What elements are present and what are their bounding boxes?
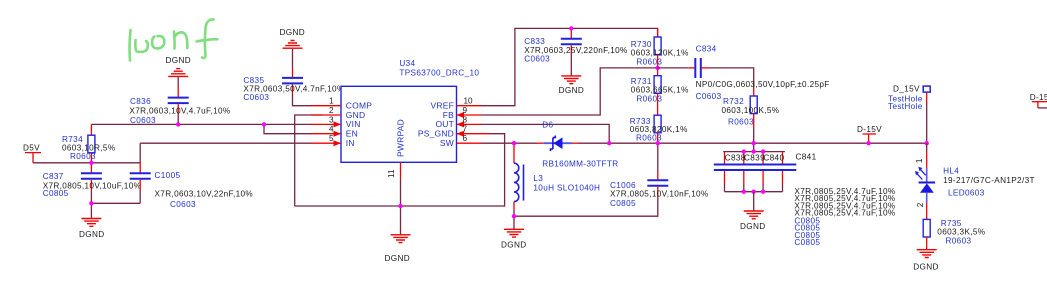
node junction D5V/R734/C837 (89, 161, 93, 165)
port D5V (23, 144, 41, 163)
svg-text:DGND: DGND (79, 230, 105, 239)
testhole D_15V (888, 84, 930, 143)
svg-text:RB160MM-30TFTR: RB160MM-30TFTR (542, 159, 618, 168)
node junction pin11/rail (398, 204, 402, 208)
svg-text:R0603: R0603 (636, 94, 662, 103)
pin 2 GND stub (311, 106, 341, 115)
svg-text:C0603: C0603 (524, 55, 550, 64)
wire IN line to pin5 (140, 142, 311, 144)
pin 6 SW stub (457, 134, 482, 143)
pin 10 VREF stub (457, 97, 482, 106)
svg-text:D-15V: D-15V (857, 125, 882, 134)
node junction C836/VIN bus (176, 122, 180, 126)
svg-text:R0603: R0603 (946, 237, 972, 246)
pin 7 PS_GND stub (457, 125, 491, 137)
ground DGND above C835 (inverted) (280, 28, 306, 68)
svg-text:5: 5 (329, 134, 334, 143)
wire pin2 GND down to rail (295, 115, 322, 206)
wire C835 to pin1 COMP (293, 93, 312, 106)
svg-text:DGND: DGND (740, 222, 766, 231)
pin 11 PWRPAD stub (387, 162, 401, 178)
node junction testhole/LED (925, 141, 929, 145)
node junction R733/C1006 (656, 141, 660, 145)
svg-text:R735: R735 (941, 219, 962, 228)
pin 5 IN stub (311, 134, 341, 146)
svg-text:D_15V: D_15V (893, 84, 920, 93)
svg-text:0603,3K,5%: 0603,3K,5% (937, 228, 985, 237)
svg-text:LED0603: LED0603 (948, 188, 985, 197)
node junction OUT down / line (607, 141, 611, 145)
svg-text:DGND: DGND (913, 263, 939, 272)
svg-text:C0805: C0805 (43, 189, 69, 198)
wire D5V net horizontal (33, 143, 140, 163)
op-amp U34 IC body TPS63700 (341, 59, 479, 162)
resistor R733 (630, 115, 688, 143)
wire FB right and up (481, 68, 658, 115)
wire pin11 to gnd rail (400, 178, 402, 206)
capacitor C836 (129, 86, 230, 125)
svg-text:C840: C840 (763, 153, 784, 162)
svg-text:TPS63700_DRC_10: TPS63700_DRC_10 (399, 69, 479, 78)
node junction L3 top / SW (512, 141, 516, 145)
svg-text:D-15V: D-15V (1030, 93, 1047, 102)
node junctions cap bank bottom rail (742, 190, 746, 194)
inductor L3 (514, 143, 600, 216)
LED HL4 (915, 143, 1035, 219)
svg-text:1: 1 (329, 97, 334, 106)
ground DGND under R735 (913, 250, 939, 272)
svg-text:0603,100K,5%: 0603,100K,5% (722, 106, 780, 115)
ground DGND under pin11 (385, 206, 411, 263)
power label D-15V on line (857, 125, 882, 143)
node junction FB/R730/R731 (655, 66, 659, 70)
wire cap bottoms to ground (91, 202, 140, 204)
svg-text:C837: C837 (43, 172, 64, 181)
annotation handwritten 100nf green (130, 19, 218, 60)
svg-text:DGND: DGND (166, 56, 192, 65)
node junctions cap bank top rail (742, 149, 746, 153)
svg-text:PWRPAD: PWRPAD (396, 119, 406, 157)
svg-text:0603,120K,1%: 0603,120K,1% (631, 49, 689, 58)
svg-text:10: 10 (464, 97, 474, 106)
svg-text:DGND: DGND (501, 241, 527, 250)
pin 3 VIN stub (311, 115, 341, 127)
svg-text:0603,665K,1%: 0603,665K,1% (631, 86, 689, 95)
svg-text:1: 1 (915, 158, 924, 163)
wire L3 bottom line to C1006 (514, 196, 658, 216)
svg-text:L3: L3 (533, 174, 543, 183)
svg-text:C0603: C0603 (696, 92, 722, 101)
pin 1 COMP stub (311, 97, 341, 106)
svg-text:4: 4 (329, 125, 334, 134)
svg-text:C1005: C1005 (155, 171, 181, 180)
svg-text:EN: EN (346, 129, 358, 139)
svg-text:19-217/G7C-AN1P2/3T: 19-217/G7C-AN1P2/3T (943, 176, 1035, 185)
wire ground rail (295, 134, 505, 206)
svg-text:R0603: R0603 (70, 152, 96, 161)
svg-text:HL4: HL4 (943, 167, 959, 176)
node junction R732/cap bank/line (752, 141, 756, 145)
node junction L3 bottom (512, 214, 516, 218)
svg-text:9: 9 (463, 106, 468, 115)
svg-text:NP0/C0G,0603,50V,10pF,±0.25pF: NP0/C0G,0603,50V,10pF,±0.25pF (696, 80, 830, 89)
svg-text:X7R,0603,10V,4.7uF,10%: X7R,0603,10V,4.7uF,10% (129, 107, 230, 116)
svg-text:D6: D6 (542, 120, 553, 129)
capacitor C837 (43, 163, 142, 204)
ground DGND under C833 (559, 76, 585, 95)
svg-text:DGND: DGND (385, 254, 411, 263)
pin 4 EN stub (311, 125, 341, 137)
svg-text:R730: R730 (631, 40, 652, 49)
svg-text:SW: SW (440, 138, 454, 148)
svg-text:R732: R732 (723, 97, 744, 106)
svg-text:3: 3 (329, 115, 334, 124)
svg-text:10uH SLO1040H: 10uH SLO1040H (533, 184, 600, 193)
svg-text:IN: IN (346, 138, 355, 148)
svg-text:X7R,0603,10V,22nF,10%: X7R,0603,10V,22nF,10% (155, 190, 254, 199)
svg-text:X7R,0805,10V,10nF,10%: X7R,0805,10V,10nF,10% (610, 190, 709, 199)
wire SW main output line (481, 142, 927, 144)
resistor R731 (631, 68, 689, 115)
diode D6 schottky (537, 120, 619, 168)
svg-text:TestHole: TestHole (888, 102, 923, 111)
pin 8 OUT stub (457, 115, 482, 127)
resistor R734 (62, 124, 115, 162)
wire VIN bus (91, 123, 311, 125)
svg-text:C838: C838 (725, 153, 746, 162)
svg-text:R0603: R0603 (636, 57, 662, 66)
ground DGND above C836 (inverted) (166, 56, 192, 86)
svg-text:2: 2 (329, 106, 334, 115)
svg-text:DGND: DGND (559, 86, 585, 95)
resistor R730 (631, 28, 689, 68)
svg-text:R0603: R0603 (728, 117, 754, 126)
node junction C837 bottom (89, 201, 93, 205)
svg-text:U34: U34 (399, 59, 415, 68)
svg-text:D5V: D5V (23, 144, 40, 153)
svg-text:C834: C834 (696, 44, 717, 53)
svg-text:C839: C839 (744, 153, 765, 162)
capacitor C834 series (658, 44, 830, 100)
capacitor C835 (243, 68, 344, 102)
node junction D-15V tap (866, 141, 870, 145)
node junction C833/VREF line (569, 26, 573, 30)
svg-text:7: 7 (463, 125, 468, 134)
resistor R735 (923, 219, 985, 250)
svg-text:X7R,0603,25V,220nF,10%: X7R,0603,25V,220nF,10% (524, 46, 627, 55)
pin 9 FB stub (457, 106, 482, 118)
capacitor C833 (524, 28, 627, 76)
node junction EN tap (262, 122, 266, 126)
capacitor C1006 (610, 143, 709, 208)
capacitor bank C838 C839 C840 C841 (714, 143, 896, 247)
svg-text:8: 8 (463, 115, 468, 124)
svg-text:DGND: DGND (280, 28, 306, 37)
port D-15V far right (cut off) (1030, 93, 1047, 108)
ground DGND under cap bank (740, 192, 766, 232)
svg-text:C0805: C0805 (794, 238, 820, 247)
svg-text:C836: C836 (130, 97, 151, 106)
svg-text:R731: R731 (631, 77, 652, 86)
svg-text:C0805: C0805 (610, 199, 636, 208)
svg-text:PS_GND: PS_GND (418, 129, 454, 139)
svg-text:6: 6 (463, 134, 468, 143)
wire EN tap (264, 124, 311, 133)
svg-text:C0603: C0603 (170, 200, 196, 209)
ground DGND under L3 (501, 216, 527, 249)
wire VREF up and over (481, 28, 658, 105)
ground DGND under C837 (79, 203, 105, 239)
svg-text:C0603: C0603 (130, 116, 156, 125)
svg-text:11: 11 (387, 169, 396, 178)
resistor R732 (722, 88, 780, 143)
capacitor C1005 (130, 163, 253, 209)
svg-text:C0603: C0603 (243, 93, 269, 102)
wire OUT right and down (481, 124, 609, 143)
svg-text:2: 2 (916, 202, 925, 207)
svg-text:C841: C841 (796, 153, 817, 162)
